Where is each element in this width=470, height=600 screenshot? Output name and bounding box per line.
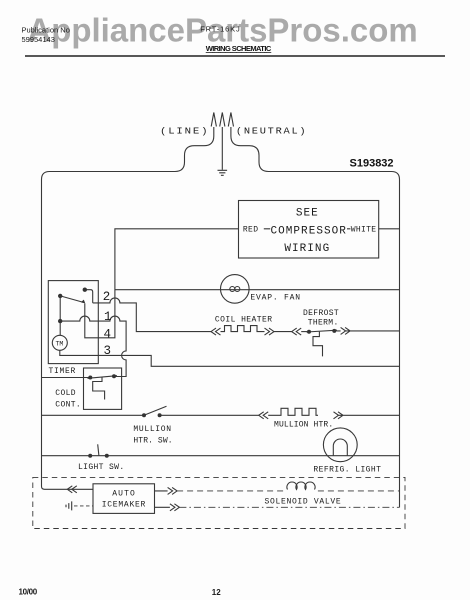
- svg-text:MULLION: MULLION: [133, 425, 171, 434]
- svg-text:WHITE: WHITE: [351, 225, 377, 234]
- svg-text:3: 3: [104, 344, 112, 358]
- svg-text:CONT.: CONT.: [55, 401, 81, 410]
- svg-text:SOLENOID VALVE: SOLENOID VALVE: [265, 498, 342, 507]
- svg-text:S193832: S193832: [350, 158, 394, 170]
- svg-text:COIL HEATER: COIL HEATER: [215, 316, 273, 325]
- svg-text:LIGHT SW.: LIGHT SW.: [78, 463, 125, 472]
- svg-text:4: 4: [104, 327, 112, 341]
- svg-text:TM: TM: [56, 341, 64, 348]
- svg-text:(LINE): (LINE): [160, 126, 209, 137]
- svg-text:Publication No: Publication No: [22, 25, 70, 34]
- svg-text:COMPRESSOR: COMPRESSOR: [270, 226, 347, 238]
- svg-text:SEE: SEE: [296, 207, 319, 219]
- svg-text:HTR. SW.: HTR. SW.: [133, 437, 173, 446]
- svg-text:(NEUTRAL): (NEUTRAL): [236, 126, 308, 137]
- svg-text:WIRING SCHEMATIC: WIRING SCHEMATIC: [206, 44, 272, 53]
- svg-text:COLD: COLD: [55, 389, 76, 398]
- svg-text:FRT-16KJ: FRT-16KJ: [200, 25, 240, 34]
- svg-text:WIRING: WIRING: [284, 243, 330, 255]
- svg-text:10/00: 10/00: [19, 588, 38, 597]
- svg-text:THERM.: THERM.: [308, 319, 339, 328]
- svg-text:2: 2: [103, 290, 111, 304]
- svg-text:59954143: 59954143: [22, 35, 55, 44]
- svg-text:RED: RED: [243, 225, 258, 234]
- svg-text:1: 1: [104, 310, 112, 324]
- svg-text:AUTO: AUTO: [112, 490, 135, 499]
- svg-text:12: 12: [212, 588, 221, 597]
- svg-text:TIMER: TIMER: [49, 367, 76, 376]
- svg-text:MULLION HTR.: MULLION HTR.: [274, 421, 334, 430]
- svg-text:DEFROST: DEFROST: [303, 309, 339, 318]
- svg-text:REFRIG. LIGHT: REFRIG. LIGHT: [313, 466, 381, 475]
- svg-text:ICEMAKER: ICEMAKER: [102, 501, 146, 510]
- svg-text:EVAP. FAN: EVAP. FAN: [250, 294, 300, 303]
